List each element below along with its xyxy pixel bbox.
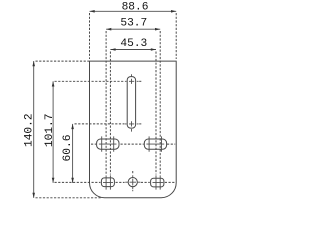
arrowhead 60.6 bottom — [71, 178, 74, 183]
centerline horizontal bottom row y=182.4 seg3 — [141, 181, 150, 183]
arrowhead 53.7 left — [106, 28, 111, 31]
centerline vertical 53.7 right x=160.2 — [159, 31, 161, 175]
centerline horizontal middle row y=144.1 left — [91, 143, 96, 145]
arrowhead 101.7 bottom — [52, 178, 55, 183]
arrowhead 60.6 top — [71, 124, 74, 129]
arrowhead 101.7 top — [52, 81, 55, 86]
dimension line 88.6 — [90, 10, 177, 12]
extension line dashed slot bottom cross right stub — [139, 123, 141, 125]
arrowhead 45.3 right — [151, 48, 156, 51]
center cross bottom circle — [125, 175, 140, 191]
extension line dashed slot top cross right stub — [139, 80, 141, 82]
obround hole middle-left — [97, 139, 119, 149]
slot hole top vertical obround — [127, 77, 135, 129]
arrowhead 88.6 left — [90, 10, 95, 13]
centerline vertical 45.3 right x=156.0 — [155, 52, 157, 175]
arrowhead 88.6 right — [171, 10, 176, 13]
svg-text:45.3: 45.3 — [120, 38, 147, 50]
centerline vertical bottom circle — [132, 171, 134, 175]
arrowhead 53.7 right — [155, 28, 160, 31]
extension line dashed 88.6 right — [175, 13, 177, 59]
obround hole bottom-left — [101, 178, 114, 187]
centerline horizontal bottom row y=182.4 seg4 — [165, 181, 175, 183]
dimension line 60.6 — [72, 124, 74, 183]
centerline horizontal bottom row y=182.4 seg1 — [55, 181, 101, 183]
dimension line 140.2 — [33, 61, 35, 198]
center cross middle-left obround — [99, 136, 117, 151]
center cross bottom-left obround — [103, 175, 113, 189]
centerline vertical 45.3 left x=110.4 — [109, 52, 111, 175]
dimension line 101.7 — [52, 81, 54, 183]
center cross slot top — [125, 74, 139, 84]
centerline horizontal bottom row y=182.4 seg2 — [116, 181, 125, 183]
extension line dashed slot bottom cross y=123.9 — [75, 123, 125, 125]
extension line dashed 88.6 left — [89, 13, 91, 59]
part outline plate — [90, 61, 177, 198]
circle hole bottom-center — [128, 178, 137, 187]
extension line dashed top y=61 — [36, 60, 90, 62]
extension line dashed bottom y=198 — [36, 197, 103, 199]
extension line dashed slot top cross y=81.3 — [55, 80, 125, 82]
svg-text:60.6: 60.6 — [62, 135, 74, 162]
dimension line 53.7 — [106, 28, 160, 30]
svg-text:140.2: 140.2 — [24, 113, 36, 147]
svg-text:88.6: 88.6 — [122, 2, 149, 14]
arrowhead 140.2 top — [32, 61, 35, 66]
center cross middle-right obround — [146, 136, 164, 151]
dimension line 45.3 — [110, 49, 156, 51]
centerline horizontal middle row y=144.1 center — [121, 143, 144, 145]
obround hole middle-right — [144, 139, 166, 149]
arrowhead 140.2 bottom — [32, 193, 35, 198]
center cross slot bottom — [125, 121, 139, 131]
center cross bottom-right obround — [153, 175, 164, 189]
centerline vertical 53.7 left x=106.1 — [105, 31, 107, 175]
arrowhead 45.3 left — [110, 48, 115, 51]
centerline horizontal middle row y=144.1 right — [167, 143, 175, 145]
obround hole bottom-right — [151, 178, 164, 187]
svg-text:101.7: 101.7 — [44, 114, 56, 148]
svg-text:53.7: 53.7 — [120, 17, 147, 29]
